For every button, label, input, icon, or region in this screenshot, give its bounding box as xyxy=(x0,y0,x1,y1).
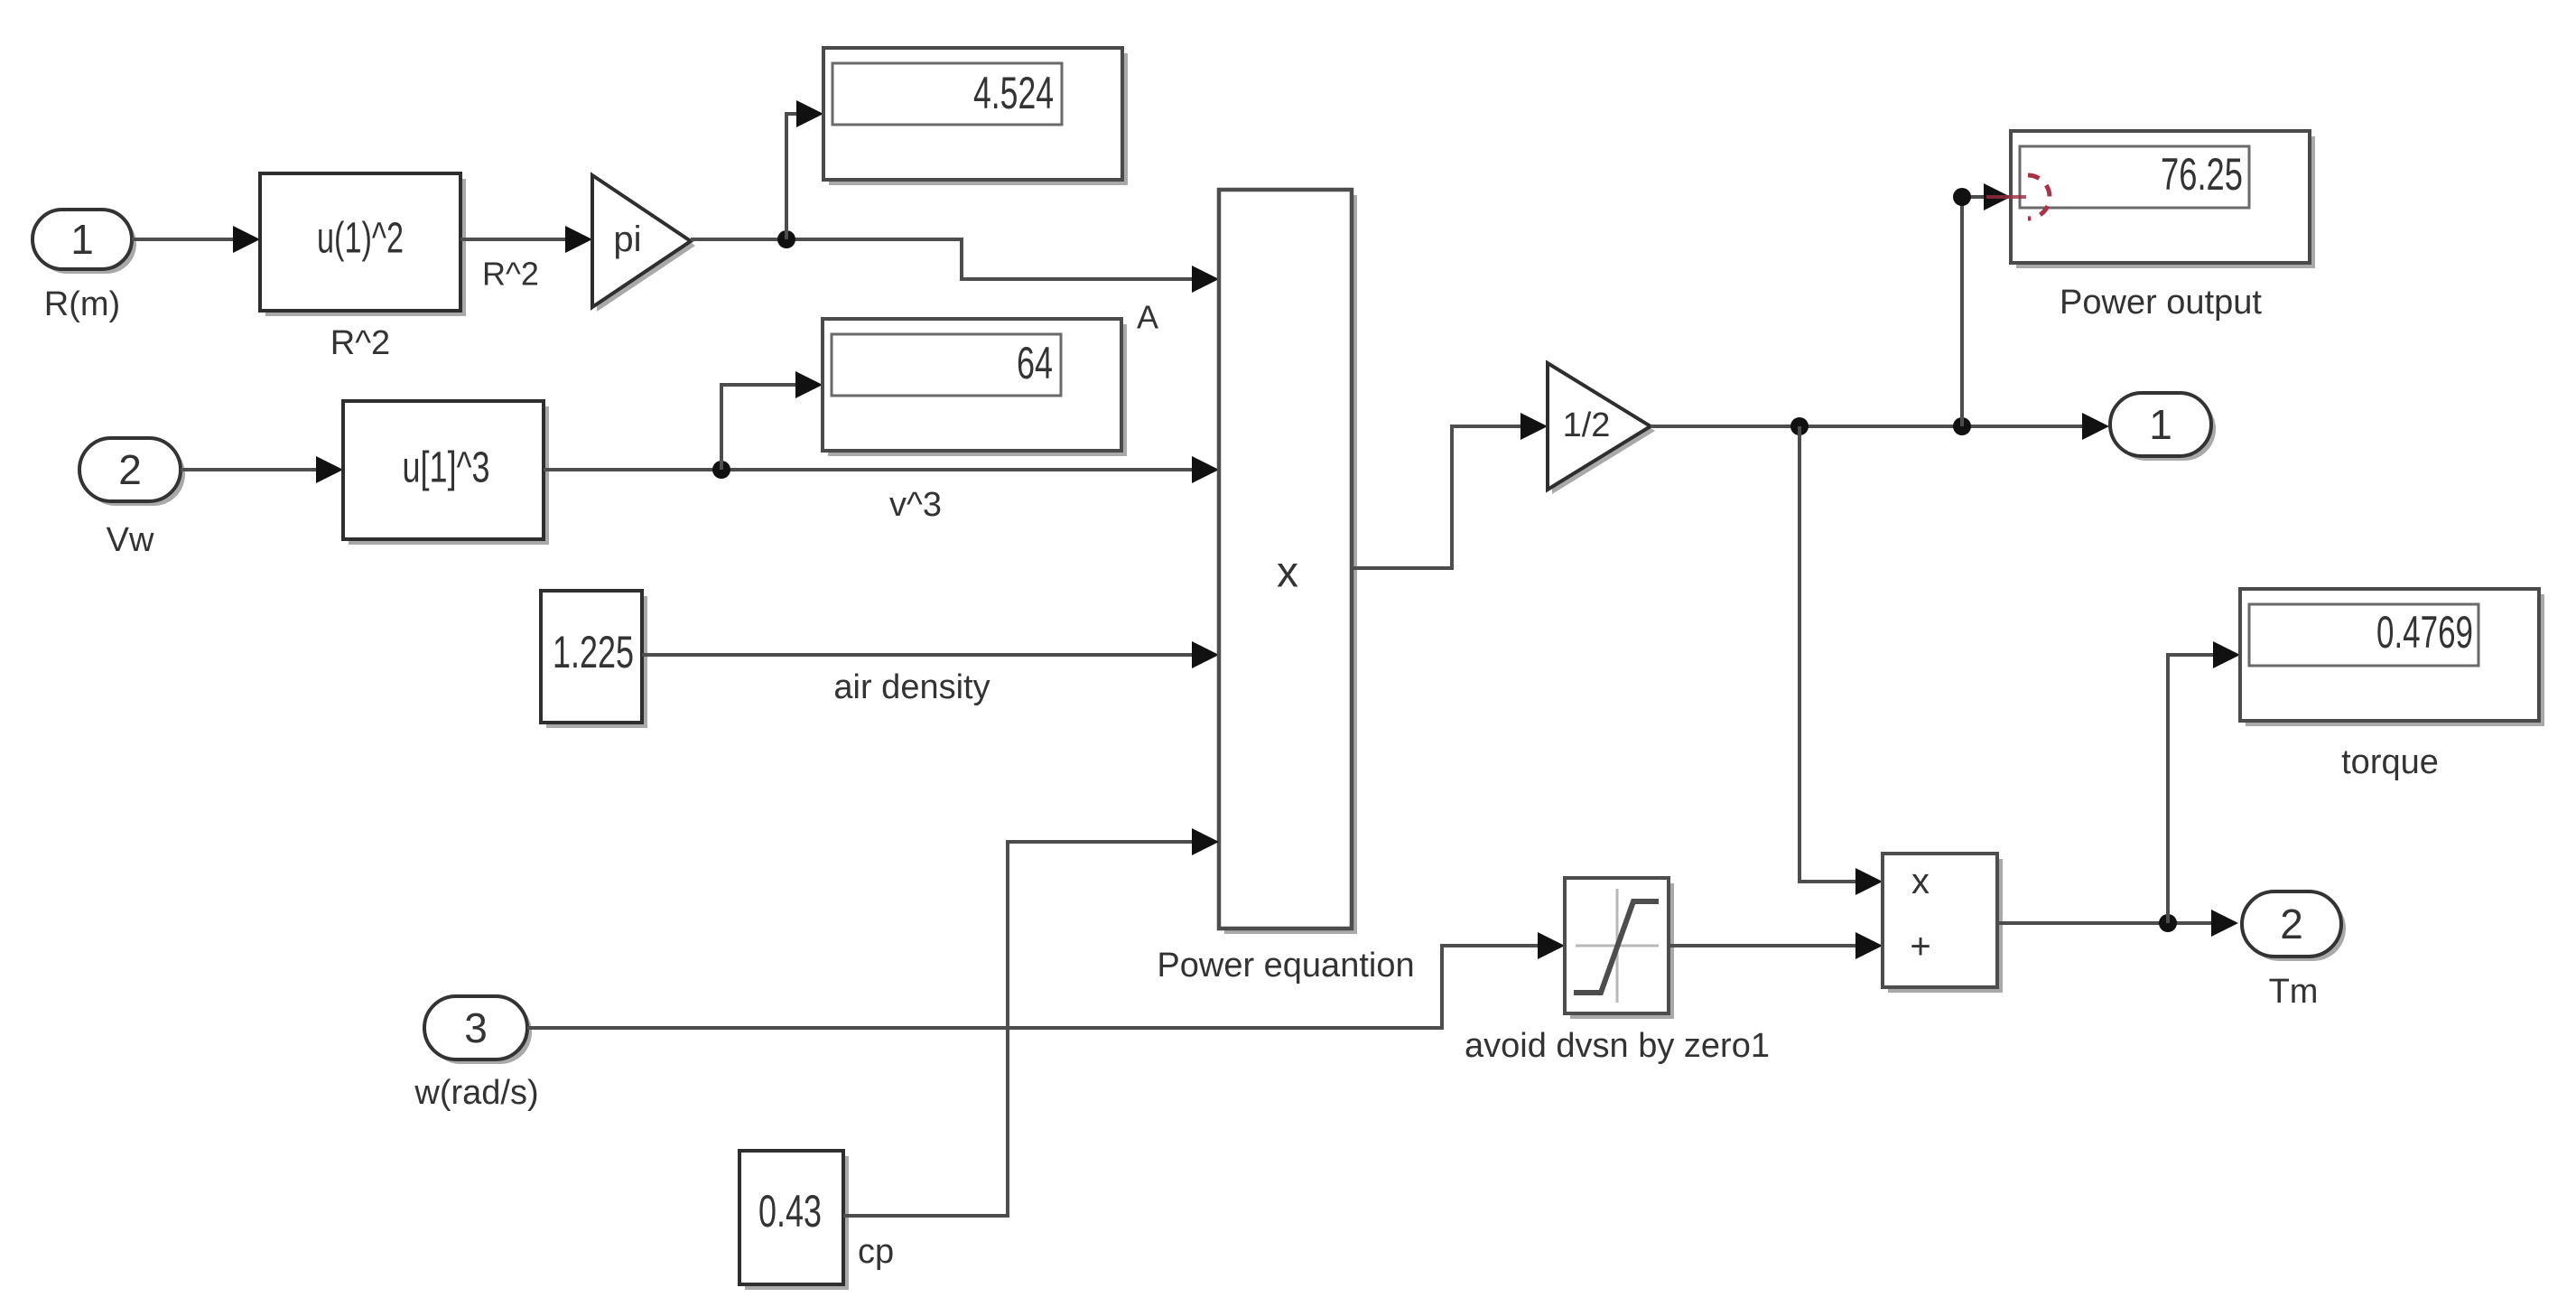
display 76.25 Power output xyxy=(2011,131,2315,322)
wire port3 to saturation xyxy=(527,932,1565,1028)
svg-text:4.524: 4.524 xyxy=(973,68,1054,118)
svg-text:w(rad/s): w(rad/s) xyxy=(414,1074,538,1112)
display 4.524 xyxy=(823,48,1128,185)
svg-text:pi: pi xyxy=(613,219,641,259)
inport 2 Vw xyxy=(79,438,185,559)
svg-text:x: x xyxy=(1911,862,1930,901)
svg-text:0.43: 0.43 xyxy=(758,1186,822,1237)
svg-text:0.4769: 0.4769 xyxy=(2376,607,2473,658)
svg-text:x: x xyxy=(1277,549,1298,597)
junction to divide branch xyxy=(1790,417,1809,435)
svg-text:+: + xyxy=(1910,927,1930,966)
svg-text:avoid dvsn by zero1: avoid dvsn by zero1 xyxy=(1465,1027,1770,1065)
wire junction up to display 4.524 xyxy=(786,100,823,239)
junction to power display branch xyxy=(1953,417,1971,435)
product block Power equantion xyxy=(1157,190,1414,985)
wire port1 to u(1)^2 xyxy=(132,226,260,253)
divide block xyxy=(1883,854,2003,993)
wire junction up to display torque xyxy=(2168,641,2240,923)
display 64 xyxy=(823,319,1127,456)
fcn block v^3 u[1]^3 xyxy=(343,401,549,545)
svg-text:cp: cp xyxy=(858,1233,894,1271)
svg-text:u[1]^3: u[1]^3 xyxy=(403,444,490,492)
svg-text:Tm: Tm xyxy=(2269,973,2319,1011)
corner dot at display 76.25 branch xyxy=(1953,188,1971,206)
wire saturation to divide input xyxy=(1669,932,1883,959)
inport 3 w(rad/s) xyxy=(414,996,538,1112)
svg-text:R(m): R(m) xyxy=(44,285,120,323)
svg-text:1: 1 xyxy=(2149,401,2172,448)
saturation avoid dvsn by zero1 xyxy=(1465,878,1770,1065)
wire junction up to display 64 xyxy=(721,371,823,470)
svg-text:Power output: Power output xyxy=(2060,284,2262,322)
svg-text:u(1)^2: u(1)^2 xyxy=(317,215,404,263)
wire gain 1/2 to outport 1 xyxy=(1651,413,2109,440)
wire pi to junction and A input xyxy=(691,239,1219,336)
svg-text:R^2: R^2 xyxy=(330,324,390,362)
wire product output to gain 1/2 xyxy=(1352,413,1548,568)
svg-text:air density: air density xyxy=(833,668,990,706)
fcn block R^2 u(1)^2 xyxy=(260,173,466,362)
junction on pi output xyxy=(777,230,795,248)
svg-text:64: 64 xyxy=(1017,338,1053,388)
svg-text:1/2: 1/2 xyxy=(1563,406,1611,444)
gain 1/2 xyxy=(1548,363,1655,494)
svg-text:76.25: 76.25 xyxy=(2161,149,2243,200)
junction on v^3 wire xyxy=(712,461,730,479)
svg-text:R^2: R^2 xyxy=(482,256,539,293)
svg-text:A: A xyxy=(1137,299,1158,336)
svg-text:Vw: Vw xyxy=(107,521,154,559)
outport 1 xyxy=(2110,393,2216,461)
display 0.4769 torque xyxy=(2240,589,2544,781)
wire u(1)^2 to pi gain, port label R^2 xyxy=(460,226,592,293)
constant 0.43 xyxy=(739,1151,894,1290)
outport 2 Tm xyxy=(2242,891,2346,1011)
svg-text:1: 1 xyxy=(70,216,94,263)
svg-text:v^3: v^3 xyxy=(889,486,942,524)
constant 1.225 xyxy=(541,591,647,728)
wire port2 to u[1]^3 xyxy=(181,456,343,483)
wire 0.43 to product cp input xyxy=(843,828,1219,1216)
svg-text:Power equantion: Power equantion xyxy=(1157,947,1414,985)
inport 1 R(m) xyxy=(33,210,136,323)
wire 1.225 to product, air density label xyxy=(642,641,1219,706)
red breakpoint marker xyxy=(1986,175,2050,219)
svg-text:2: 2 xyxy=(2280,901,2303,947)
wire junction down to divide x input xyxy=(1799,426,1883,895)
junction on Tm wire xyxy=(2159,914,2177,932)
wire junction up to display 76.25 xyxy=(1962,183,2011,426)
wire divide output to outport 2 xyxy=(1997,910,2238,937)
svg-text:3: 3 xyxy=(464,1004,488,1051)
svg-text:1.225: 1.225 xyxy=(553,627,634,677)
svg-text:2: 2 xyxy=(118,446,142,493)
gain pi xyxy=(592,175,695,312)
wire u[1]^3 to product input v^3 xyxy=(544,456,1219,524)
svg-text:torque: torque xyxy=(2341,743,2439,781)
